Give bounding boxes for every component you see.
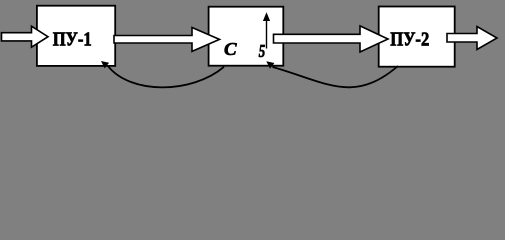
feedback arc ПУ-2 to С xyxy=(273,66,399,87)
svg-text:ПУ-2: ПУ-2 xyxy=(390,29,429,51)
svg-text:5: 5 xyxy=(259,41,266,61)
feedback arc С to ПУ-1 xyxy=(108,66,225,88)
block arrow С to ПУ-2 xyxy=(274,26,389,52)
output block arrow xyxy=(447,27,497,50)
svg-text:С: С xyxy=(224,39,238,59)
svg-text:ПУ-1: ПУ-1 xyxy=(53,29,92,51)
block arrow ПУ-1 to С xyxy=(114,28,220,52)
block ПУ-2 xyxy=(379,7,455,67)
noise arrow line in С xyxy=(266,19,268,49)
input block arrow xyxy=(2,26,49,47)
block ПУ-1 xyxy=(37,6,115,66)
feedback arrowhead at ПУ-1 xyxy=(101,61,109,68)
block С xyxy=(209,7,284,66)
feedback arrowhead at С xyxy=(266,61,274,68)
noise arrowhead xyxy=(263,12,270,21)
